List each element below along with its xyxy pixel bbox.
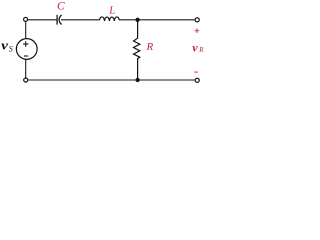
plus mark inside source bbox=[23, 43, 28, 45]
wire top: capacitor to inductor bbox=[61, 19, 100, 21]
terminal top-right bbox=[195, 18, 199, 22]
inductor L bbox=[100, 17, 120, 21]
resistor R bbox=[134, 22, 140, 80]
junction dot top node bbox=[135, 18, 139, 22]
terminal bottom-right bbox=[195, 78, 199, 82]
svg-text:R: R bbox=[146, 41, 154, 53]
svg-text:v: v bbox=[1, 39, 8, 53]
label vS bbox=[1, 39, 13, 54]
label minus (red, output polarity) bbox=[194, 71, 198, 73]
label vR bbox=[192, 41, 204, 55]
minus mark inside source bbox=[24, 55, 28, 57]
svg-text:L: L bbox=[108, 6, 115, 17]
svg-text:S: S bbox=[9, 45, 13, 54]
wire: source down to bottom-left terminal bbox=[25, 59, 27, 77]
junction dot bottom node bbox=[135, 78, 139, 82]
wire top: inductor to right terminal bbox=[119, 19, 195, 21]
terminal bottom-left bbox=[24, 78, 28, 82]
label + (red, output polarity) bbox=[195, 28, 200, 33]
svg-text:v: v bbox=[192, 41, 198, 55]
voltage source VS bbox=[16, 39, 37, 60]
wire bottom: left terminal to right terminal bbox=[28, 79, 195, 81]
capacitor C bbox=[57, 15, 62, 25]
svg-text:R: R bbox=[198, 46, 204, 54]
terminal top-left bbox=[24, 17, 28, 21]
svg-text:C: C bbox=[57, 1, 65, 13]
wire: top-left terminal down to source bbox=[25, 22, 27, 39]
wire top: left terminal to capacitor bbox=[28, 19, 57, 21]
